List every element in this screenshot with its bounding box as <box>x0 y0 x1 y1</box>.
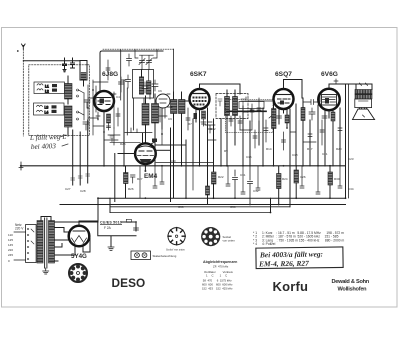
IF2 trimmers <box>218 99 245 106</box>
power transformer secondary <box>49 221 55 264</box>
IF1 coil stack left <box>142 96 149 144</box>
6SQ7 cathode parts <box>277 109 290 129</box>
svg-text:C34: C34 <box>348 187 354 191</box>
svg-text:R22: R22 <box>218 175 224 179</box>
handwritten note faellt weg <box>29 133 68 151</box>
IF2 coil stack left <box>225 90 230 166</box>
band range table <box>253 231 345 246</box>
svg-text:C35: C35 <box>178 205 184 209</box>
scattered component labels <box>65 89 354 209</box>
IF1b coil stack right <box>179 92 186 166</box>
speaker field coil <box>355 99 372 109</box>
svg-text:F 2A: F 2A <box>104 226 112 230</box>
IF1b coil stack left <box>171 92 178 198</box>
cap C mid <box>233 166 253 205</box>
svg-text:Korfu: Korfu <box>273 279 309 294</box>
svg-text:220 V: 220 V <box>15 227 24 231</box>
svg-text:C28: C28 <box>80 189 86 193</box>
coupling caps to 6SQ7 <box>248 98 273 121</box>
tube 5Y4G envelope <box>69 226 90 247</box>
tube 6SQ7 envelope <box>274 89 294 109</box>
svg-text:1 C 1 C: 1 C 1 C <box>206 274 227 278</box>
svg-text:EM-4, R26, R27: EM-4, R26, R27 <box>258 259 309 269</box>
mid vertical wires row <box>124 80 340 198</box>
oscillator trimmer A <box>139 56 145 70</box>
EM4 top cap blob <box>143 133 158 145</box>
svg-text:R14: R14 <box>266 147 272 151</box>
svg-text:Wollishofen: Wollishofen <box>338 287 368 293</box>
svg-text:CU/ES 5010: CU/ES 5010 <box>100 221 122 225</box>
coil box L1 L2 <box>34 82 65 94</box>
svg-text:C18: C18 <box>292 153 298 157</box>
EM4 right wires <box>110 128 213 202</box>
coil box L3 L4 <box>34 103 65 115</box>
band switch contacts <box>77 80 94 135</box>
oscillator trimmer B <box>146 56 152 70</box>
6V6G cathode parts <box>322 110 335 124</box>
svg-text:145: 145 <box>8 243 13 247</box>
svg-text:4: Polizei: 4: Polizei <box>262 242 276 246</box>
bus B2 <box>110 206 290 208</box>
tube 6SK7 envelope <box>190 89 210 109</box>
osc verticals <box>121 50 150 135</box>
power transformer primary <box>37 221 43 264</box>
svg-text:C27: C27 <box>65 187 71 191</box>
wire top frame 6J8G box <box>100 51 163 91</box>
6J8G cathode parts <box>96 111 111 166</box>
svg-text:R9: R9 <box>224 149 228 153</box>
6SK7 cathode parts <box>194 109 207 166</box>
svg-text:R30: R30 <box>334 177 340 181</box>
left return wires <box>71 120 90 185</box>
bus B4 <box>110 212 271 214</box>
svg-text:DESO: DESO <box>112 276 146 290</box>
svg-text:* 4: * 4 <box>253 242 257 246</box>
junction dots row <box>97 165 346 206</box>
tube 6V6G envelope <box>318 89 339 110</box>
wire antenna to wave trap <box>23 60 80 62</box>
svg-text:R24: R24 <box>282 177 288 181</box>
grid leak trimmer left <box>126 54 132 88</box>
oscillator coil stack A <box>139 70 143 95</box>
oscillator coil stack B <box>146 70 151 95</box>
bus B3 <box>60 204 346 206</box>
detector caps <box>205 116 242 133</box>
output transformer windings <box>346 83 373 99</box>
detector dotted enclosure <box>226 100 274 133</box>
padder capacitor <box>119 77 127 92</box>
6V6G top wires <box>329 79 355 198</box>
coil L-trap <box>80 61 87 87</box>
coil winding stack lower <box>65 106 73 136</box>
resistor R mid right2 <box>294 166 299 198</box>
decoupling resistor Rk2 <box>206 166 210 205</box>
octal socket below 5Y4G <box>69 264 87 282</box>
svg-text:C21: C21 <box>322 152 328 156</box>
misc wiring cluster band switch <box>84 82 108 126</box>
main ground bus <box>19 162 346 170</box>
EM4 bottom lead <box>144 164 146 172</box>
voltage selector block <box>26 225 36 263</box>
chassis ground under fuse <box>108 247 114 250</box>
svg-text:Bei 4003/a fällt weg:: Bei 4003/a fällt weg: <box>259 249 323 259</box>
svg-text:C30: C30 <box>170 159 176 163</box>
svg-text:R7: R7 <box>188 122 192 126</box>
svg-text:6SQ7: 6SQ7 <box>275 71 292 78</box>
volume pot R <box>269 101 276 166</box>
svg-text:C15: C15 <box>246 155 252 159</box>
svg-text:L3: L3 <box>45 106 49 110</box>
svg-text:C4: C4 <box>116 95 120 99</box>
svg-text:bei 4003: bei 4003 <box>31 142 57 151</box>
svg-text:Dewald & Sohn: Dewald & Sohn <box>332 279 370 285</box>
dial lamps <box>131 251 151 260</box>
6SK7 top feed wire <box>200 84 241 94</box>
antenna terminal <box>17 44 25 52</box>
power transformer core <box>45 218 47 268</box>
bus junction dots <box>145 165 331 214</box>
right frame wire <box>345 128 347 198</box>
svg-text:245: 245 <box>8 253 13 257</box>
svg-text:Skalenbeleuchtung: Skalenbeleuchtung <box>153 254 177 258</box>
svg-text:C36: C36 <box>230 205 236 209</box>
svg-text:Abgleichfrequenzen: Abgleichfrequenzen <box>203 260 237 264</box>
svg-text:EM4: EM4 <box>144 173 158 180</box>
mains voltage tap labels <box>8 223 24 263</box>
transformer top lead to HT <box>41 217 51 221</box>
mains leads <box>14 232 26 260</box>
transformer ground <box>43 268 49 274</box>
resistor under 6V6 <box>328 166 333 198</box>
svg-text:L1: L1 <box>45 85 49 89</box>
oscillator coil box <box>133 70 154 99</box>
svg-text:C6: C6 <box>158 89 162 93</box>
6SQ7 top wire <box>284 80 303 99</box>
speaker cone <box>353 109 375 120</box>
IF2 dashed box <box>216 94 248 119</box>
svg-text:5Y4G: 5Y4G <box>71 253 87 260</box>
EM4 left frame wire <box>114 154 116 202</box>
misc wiring cluster tuning <box>104 60 120 145</box>
resistor R mid right <box>277 166 282 205</box>
svg-text:R20: R20 <box>336 147 342 151</box>
capacitor C2 wave trap <box>71 58 75 68</box>
trimmer cap left lower <box>83 122 89 130</box>
octal socket dark bottom view <box>201 227 220 246</box>
svg-text:6J8G: 6J8G <box>102 71 118 78</box>
svg-text:C26: C26 <box>300 175 306 179</box>
dashed antenna lead <box>22 49 24 136</box>
misc wiring cluster mid IF <box>208 112 269 148</box>
svg-text:R25: R25 <box>120 142 126 146</box>
svg-text:Sockel von unten: Sockel von unten <box>166 249 186 252</box>
svg-text:C32: C32 <box>253 189 259 193</box>
svg-text:R26: R26 <box>128 187 134 191</box>
svg-text:6SK7: 6SK7 <box>190 71 207 78</box>
svg-text:C9: C9 <box>168 117 172 121</box>
svg-text:ZF: 470 kHz: ZF: 470 kHz <box>213 265 229 269</box>
bus B1 <box>98 197 346 199</box>
tuning gang wire <box>112 92 116 128</box>
svg-text:L fällt weg L: L fällt weg L <box>29 133 67 142</box>
svg-text:220: 220 <box>8 248 13 252</box>
alignment frequency table <box>202 260 237 291</box>
IF2 coil stack right <box>233 90 238 145</box>
volume control track heavy <box>227 110 266 112</box>
svg-text:L4: L4 <box>45 111 49 115</box>
trimmer cap left <box>84 100 90 108</box>
svg-text:110: 110 <box>8 233 13 237</box>
svg-text:L2: L2 <box>45 90 49 94</box>
svg-text:152 453 152 425 kHz: 152 453 152 425 kHz <box>202 287 233 291</box>
fuse leads <box>98 198 139 246</box>
EM4 grid wire <box>118 153 135 155</box>
secondary taps to rectifier <box>55 222 99 261</box>
socket side view ticked <box>168 228 185 245</box>
5Y4G top lead <box>79 221 98 226</box>
handwritten note box <box>256 247 343 269</box>
coupling RC to 6V6G <box>301 95 320 166</box>
svg-text:125: 125 <box>8 238 13 242</box>
decoupling resistor Rk1 <box>212 172 217 198</box>
bus right risers <box>110 198 290 212</box>
svg-text:von unten: von unten <box>223 239 236 243</box>
tube 6J8G envelope <box>94 91 114 111</box>
fuse block CU/ES 5010 <box>100 221 122 230</box>
svg-text:6V6G: 6V6G <box>321 71 338 78</box>
grid cap wire 6SK7 <box>185 100 190 102</box>
misc wiring cluster osc right <box>155 94 190 145</box>
misc wiring cluster det stage <box>282 118 343 150</box>
oscillator circle section <box>156 94 170 108</box>
capacitor C1 wave trap <box>63 58 67 72</box>
IF1 trimmer caps <box>142 80 158 93</box>
dashed shield box left coil set <box>29 65 90 136</box>
IF1 coil stack right <box>152 94 159 145</box>
svg-text:C23: C23 <box>348 157 354 161</box>
EM4 cathode resistor R26 <box>124 166 136 198</box>
coil winding stack upper <box>65 76 73 104</box>
volume control body <box>239 97 264 111</box>
tube EM4 envelope <box>135 143 156 164</box>
misc lower verticals <box>140 166 342 198</box>
osc top link <box>135 49 157 58</box>
shield dotted top line <box>103 48 174 50</box>
